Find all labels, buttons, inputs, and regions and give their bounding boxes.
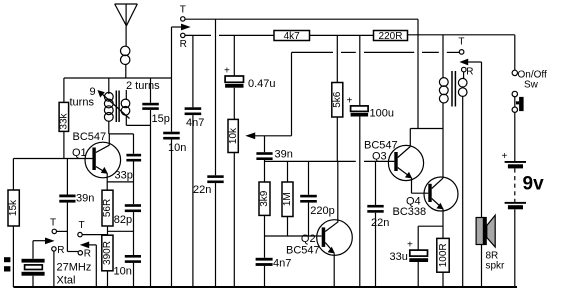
- wire Q1 collector: [108, 134, 110, 145]
- switch S2 R contact: [52, 245, 65, 287]
- resistor 15k: [8, 159, 19, 288]
- switch S4 R contact: [462, 66, 474, 77]
- svg-text:33k: 33k: [59, 112, 70, 129]
- capacitor 22n left: [193, 19, 224, 287]
- transformer T1 primary 9 turns: [104, 78, 113, 134]
- svg-text:T: T: [458, 36, 464, 47]
- svg-text:BC547: BC547: [286, 245, 320, 257]
- svg-text:22n: 22n: [193, 184, 211, 196]
- wire Q3 base rail: [265, 160, 395, 162]
- wire T-line drop to PA node: [417, 19, 419, 128]
- label 27MHz Xtal: [57, 262, 92, 287]
- capacitor 15p: [142, 78, 170, 287]
- svg-text:T: T: [50, 217, 56, 228]
- switch S1 pole arrow: [172, 24, 191, 31]
- svg-text:4n7: 4n7: [186, 117, 204, 129]
- svg-text:22n: 22n: [371, 217, 389, 229]
- switch S4 pole arrow: [459, 59, 481, 287]
- wire Q1 emitter: [106, 173, 108, 190]
- svg-text:R: R: [180, 39, 187, 50]
- wire Q1 base rail: [13, 158, 92, 160]
- capacitor 4n7 upper: [185, 35, 205, 287]
- svg-text:+: +: [407, 240, 413, 251]
- transformer T2 core: [452, 71, 455, 107]
- antenna: [115, 4, 138, 47]
- resistor 4k7: [274, 31, 310, 42]
- svg-text:15k: 15k: [8, 199, 19, 216]
- capacitor 4n7 lower: [256, 258, 292, 288]
- wire Q3 emitter to Q4 base: [412, 178, 429, 193]
- svg-text:Xtal: Xtal: [57, 275, 76, 287]
- svg-text:5k6: 5k6: [332, 91, 343, 108]
- svg-text:R: R: [57, 245, 64, 256]
- label 9 turns: [70, 86, 96, 109]
- wire 33u junction: [418, 226, 443, 250]
- transistor Q2 BC547: [317, 220, 353, 287]
- svg-text:39n: 39n: [275, 148, 293, 160]
- svg-text:9v: 9v: [523, 174, 545, 195]
- wire R-line segment 1: [186, 34, 212, 36]
- svg-text:BC338: BC338: [393, 206, 427, 218]
- svg-text:Q2: Q2: [301, 233, 316, 245]
- resistor 5k6: [332, 35, 343, 161]
- 10k wiper arrow: [245, 52, 291, 139]
- svg-text:+: +: [224, 65, 230, 76]
- svg-text:4n7: 4n7: [273, 258, 291, 270]
- wire T1 secondary bottom to 15p column: [126, 124, 150, 126]
- svg-text:1M: 1M: [282, 192, 293, 206]
- label Q4 BC338: [393, 196, 427, 218]
- svg-text:39n: 39n: [76, 193, 94, 205]
- transformer T2 primary: [439, 35, 448, 178]
- transformer T1 core: [116, 91, 119, 123]
- svg-text:R: R: [84, 249, 91, 260]
- svg-text:turns: turns: [70, 97, 95, 109]
- switch S3 pole arrow: [80, 242, 97, 288]
- wire pole link to R contact of switch 3: [67, 251, 78, 253]
- switch S5 On/Off: [512, 35, 524, 161]
- switch S3 T contact: [78, 220, 108, 237]
- svg-text:33u: 33u: [390, 251, 408, 263]
- capacitor 10n upper: [163, 27, 186, 287]
- wire 56R-390R junction to 82p column: [108, 230, 134, 232]
- T1 tuning arrow: [98, 90, 130, 119]
- wire emitter junction to 33p bottom: [107, 181, 133, 183]
- wire Q3 collector: [410, 129, 443, 147]
- svg-text:Sw: Sw: [524, 80, 539, 91]
- label 2 turns: [126, 80, 163, 92]
- wire RX feed (hops): [292, 51, 460, 53]
- wire T-line top: [185, 18, 418, 20]
- label Q2 BC547: [286, 233, 320, 257]
- wire supply to switch: [408, 34, 515, 36]
- svg-text:220R: 220R: [379, 31, 403, 42]
- svg-text:100u: 100u: [370, 108, 394, 120]
- left edge clipped marks: [4, 257, 10, 271]
- transistor Q1 BC547: [85, 142, 121, 178]
- capacitor 10n lower: [114, 255, 142, 287]
- svg-text:10k: 10k: [228, 127, 239, 144]
- resistor 1M: [282, 161, 293, 236]
- wire tank top rail: [64, 77, 172, 79]
- resistor 56R: [102, 190, 113, 235]
- label BC547 Q3: [364, 140, 398, 163]
- capacitor 100u electrolytic: [347, 35, 394, 287]
- capacitor 82p: [114, 204, 141, 255]
- wire ground bus: [13, 286, 517, 288]
- svg-text:2 turns: 2 turns: [126, 80, 160, 92]
- resistor 3k9: [259, 182, 270, 258]
- svg-text:spkr: spkr: [486, 260, 506, 271]
- svg-text:3k9: 3k9: [259, 190, 270, 207]
- svg-text:82p: 82p: [114, 214, 132, 226]
- capacitor 33u electrolytic: [390, 240, 429, 287]
- transformer T1 secondary 2 turns: [121, 90, 130, 125]
- switch S2 pole arrow: [33, 238, 55, 245]
- svg-text:+: +: [347, 96, 353, 107]
- resistor 100R: [437, 209, 449, 287]
- capacitor 33p: [115, 134, 142, 204]
- svg-text:27MHz: 27MHz: [57, 262, 92, 274]
- transistor Q4 BC338: [424, 177, 458, 211]
- switch S1 T contact: [180, 4, 186, 21]
- svg-text:+: +: [502, 151, 508, 162]
- resistor 220R: [374, 31, 408, 42]
- transistor Q3 BC547: [388, 145, 423, 180]
- resistor 33k: [59, 78, 70, 159]
- wire collector to 33p: [109, 133, 134, 135]
- wire Q2 collector: [337, 161, 339, 221]
- wire R-line segment 2: [219, 34, 274, 36]
- speaker 8R: [476, 215, 495, 247]
- wire R-line segment 3: [310, 34, 374, 36]
- capacitor 22n right: [367, 161, 389, 287]
- svg-text:100R: 100R: [438, 243, 449, 267]
- svg-text:0.47u: 0.47u: [248, 78, 276, 90]
- label BC547 Q1: [72, 131, 106, 159]
- wire Q2 base rail: [265, 235, 322, 237]
- svg-text:Q3: Q3: [372, 150, 387, 162]
- label 8R spkr: [486, 251, 506, 272]
- svg-text:10n: 10n: [114, 266, 132, 278]
- transformer T2 secondary: [458, 72, 467, 287]
- switch S1 R contact: [180, 33, 187, 50]
- battery 9v: [502, 151, 545, 287]
- switch S3 R contact: [78, 249, 91, 260]
- capacitor 0.47u electrolytic: [224, 35, 276, 119]
- svg-text:10n: 10n: [168, 142, 186, 154]
- switch S2 T contact: [50, 217, 67, 233]
- label On/Off Sw: [518, 70, 547, 91]
- svg-text:T: T: [79, 220, 85, 231]
- svg-text:390R: 390R: [102, 241, 113, 265]
- capacitor 39n left: [59, 159, 94, 252]
- svg-text:33p: 33p: [115, 170, 133, 182]
- resistor 10k: [228, 119, 239, 287]
- crystal X1 27MHz: [22, 241, 45, 287]
- svg-text:T: T: [180, 4, 186, 15]
- svg-text:Q1: Q1: [72, 147, 87, 159]
- capacitor 220p: [300, 161, 335, 236]
- svg-text:4k7: 4k7: [284, 31, 301, 42]
- svg-text:220p: 220p: [310, 205, 334, 217]
- inductor L1 antenna coil: [121, 46, 130, 64]
- wire antenna coil to tank: [125, 64, 127, 78]
- resistor 390R: [102, 235, 113, 287]
- capacitor 39n right: [256, 136, 292, 182]
- switch S4 T contact: [458, 36, 464, 54]
- svg-text:BC547: BC547: [73, 131, 107, 143]
- svg-text:R: R: [466, 66, 473, 77]
- svg-text:15p: 15p: [152, 113, 170, 125]
- svg-text:56R: 56R: [102, 199, 113, 217]
